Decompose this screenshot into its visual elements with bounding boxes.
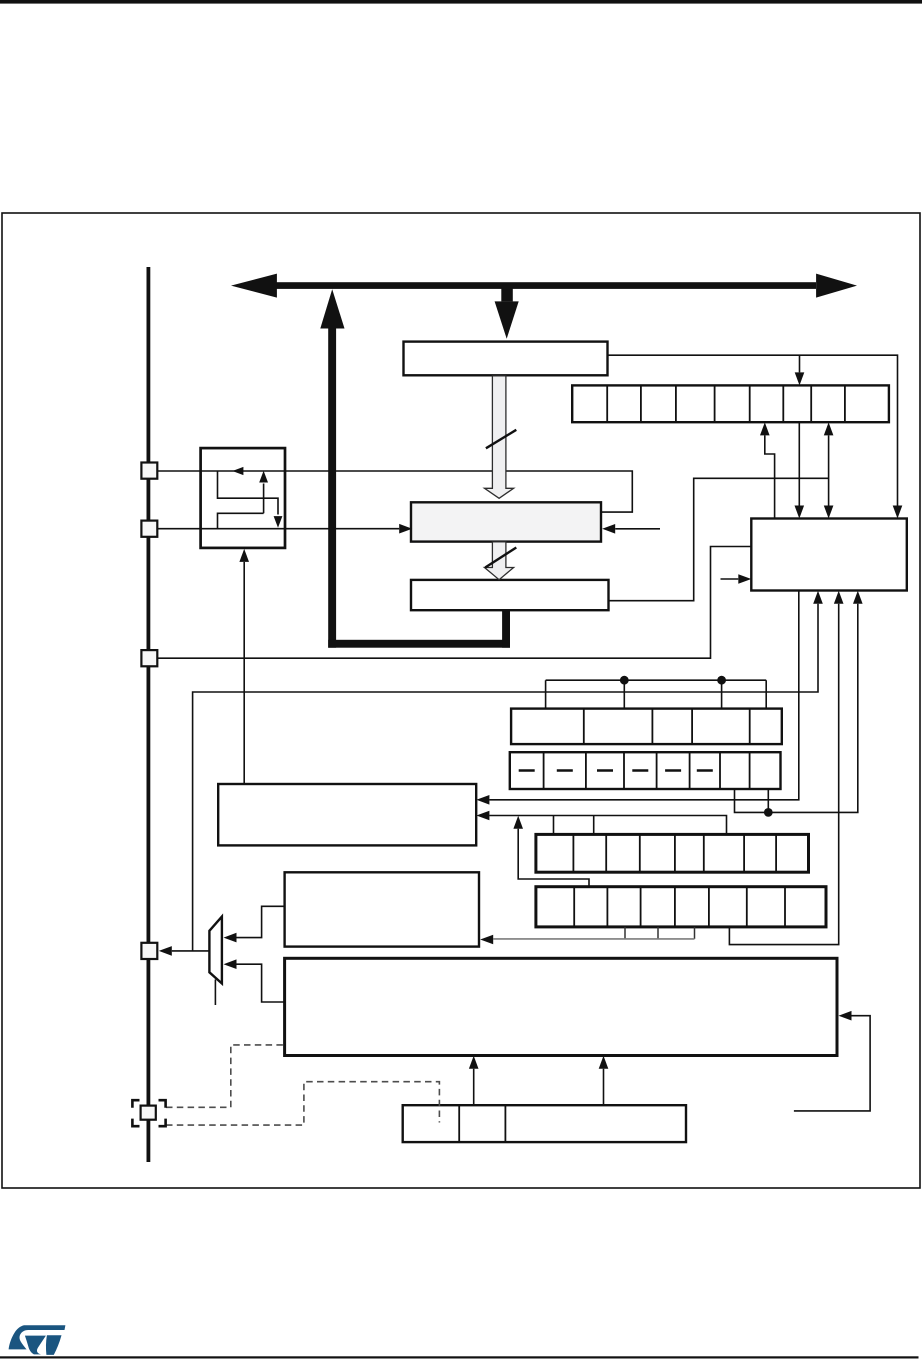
wire box0 right to SR drop and box E top	[608, 355, 898, 505]
junction dot CR bits net	[764, 808, 773, 817]
junction dot baud net left	[620, 676, 629, 685]
wire box E bottom to receiver control box A	[489, 591, 798, 800]
arrowhead into SR top	[795, 372, 805, 385]
thick write arrow from bus	[495, 287, 519, 339]
wire shift register right to box E net	[609, 478, 829, 600]
transmit data register TDR (gray)	[411, 502, 601, 541]
pin square 3	[141, 650, 157, 666]
register DR buffer box0	[404, 342, 608, 376]
transmit shift register box2	[411, 580, 609, 610]
selector box inner path B	[218, 471, 279, 515]
wire SR bottom to box E top (left)	[798, 422, 800, 505]
control register 2 (8 cells)	[536, 887, 826, 927]
dashed net pin5 to box D	[166, 1082, 439, 1125]
open bus arrow box0 to TDR	[485, 376, 514, 498]
output mux trapezoid	[209, 917, 222, 984]
wire stub right of TDR	[615, 528, 660, 530]
ST logo	[9, 1325, 66, 1355]
pin square 1	[141, 463, 157, 479]
wire box E bottom to CR dashed bits	[735, 604, 858, 813]
wire pin3 to control box E left	[157, 547, 751, 659]
dashed net pin5 to box C	[166, 1045, 285, 1107]
wire mux clock stub	[214, 980, 216, 1006]
arrowhead down into box E top 3	[893, 506, 903, 519]
arrowhead up into box E bottom 3	[853, 591, 863, 604]
wire SR bottom to box E top (center)	[828, 435, 830, 505]
baud rate generator box D (3 cells)	[403, 1105, 686, 1142]
selector box inner path A	[218, 484, 264, 529]
arrowhead into box C right	[839, 1011, 852, 1021]
transmitter control box B	[285, 872, 479, 946]
arrowhead up-join CR2 net	[513, 816, 523, 829]
arrowhead up into box C bottom 2	[599, 1056, 609, 1069]
wire box E bottom to CR2 bit	[729, 604, 838, 945]
internal bus left arrowhead	[231, 274, 277, 298]
control register CR (8 cells with dashes)	[510, 752, 781, 789]
footer rule	[0, 1356, 919, 1358]
left pin bus line	[147, 267, 151, 1162]
baud rate register (5 cells)	[511, 709, 782, 745]
wire box E bottom to mux select net	[193, 604, 818, 951]
pin square 4	[141, 943, 157, 959]
wire mux output to pin4	[172, 950, 210, 952]
top page rule	[0, 0, 922, 4]
internal bus right arrowhead	[816, 274, 857, 298]
arrowhead up inside selector	[259, 471, 268, 483]
arrowhead up into box E bottom 1	[813, 591, 823, 604]
arrowhead into box B right	[480, 935, 493, 945]
thick read arrow to bus	[320, 289, 344, 647]
arrowhead up into SR bottom right	[824, 422, 834, 435]
slash on open arrow 1	[486, 430, 516, 449]
junction dot baud net right	[717, 676, 726, 685]
gray wire CR2 sub-cells to box B	[493, 938, 694, 940]
internal bus shaft	[274, 282, 816, 289]
pin square 2	[141, 521, 157, 537]
arrowhead up into box C bottom 1	[469, 1056, 479, 1069]
slash on open arrow 2	[485, 548, 516, 568]
wire CR1 bits to box A	[489, 816, 726, 835]
wire box C to mux input 2	[237, 964, 285, 1002]
arrowhead into TDR right stub	[602, 524, 615, 534]
wire pin2 to TDR left side	[157, 528, 399, 530]
wire pin1 to TDR right side	[157, 471, 632, 512]
arrowhead stub into box E left	[738, 574, 751, 584]
arrowhead up into box E bottom 2	[834, 591, 844, 604]
transmitter clock big box C	[285, 958, 837, 1055]
wire baud register top net	[546, 680, 767, 708]
thick read path riser	[502, 610, 510, 648]
arrowhead into box A right 1	[476, 795, 489, 805]
pin5 corner brackets	[132, 1100, 165, 1126]
wire SR bottom jog to box E top	[765, 435, 775, 518]
arrowhead up into selector box bottom	[239, 549, 249, 562]
open bus arrow TDR to shift register	[485, 542, 514, 580]
figure frame	[2, 213, 920, 1188]
thick read path horizontal	[328, 640, 510, 648]
arrowhead into TDR left	[399, 524, 412, 534]
receiver control box A	[218, 784, 476, 845]
control register 1 (8 cells)	[536, 834, 809, 872]
arrowhead left on selector line1	[232, 467, 243, 475]
wire box A top to selector box	[243, 562, 245, 784]
wire CR2 bit up-join to box A net	[518, 829, 589, 887]
wire stub into control box E left	[721, 578, 739, 580]
gray sub-cell dividers under CR2	[625, 927, 695, 939]
arrowhead into box A right 2	[476, 811, 489, 821]
arrowhead into pin4	[159, 946, 172, 956]
selector box (pin routing)	[201, 448, 285, 548]
arrowhead down into box E top 1	[795, 506, 805, 519]
wire box B to mux input 1	[237, 906, 285, 937]
arrowhead into mux input 2	[224, 959, 237, 969]
arrowhead down inside selector	[274, 516, 283, 528]
arrowhead up into SR bottom left	[760, 422, 770, 435]
wire into box C right	[794, 1016, 870, 1111]
wire box D to box C shafts	[474, 1069, 604, 1105]
status register SR (9 cells)	[572, 385, 889, 422]
arrowhead into mux input 1	[224, 933, 237, 943]
control box E	[751, 519, 907, 591]
arrowhead down into box E top 2	[824, 506, 834, 519]
pin square 5	[141, 1106, 156, 1120]
